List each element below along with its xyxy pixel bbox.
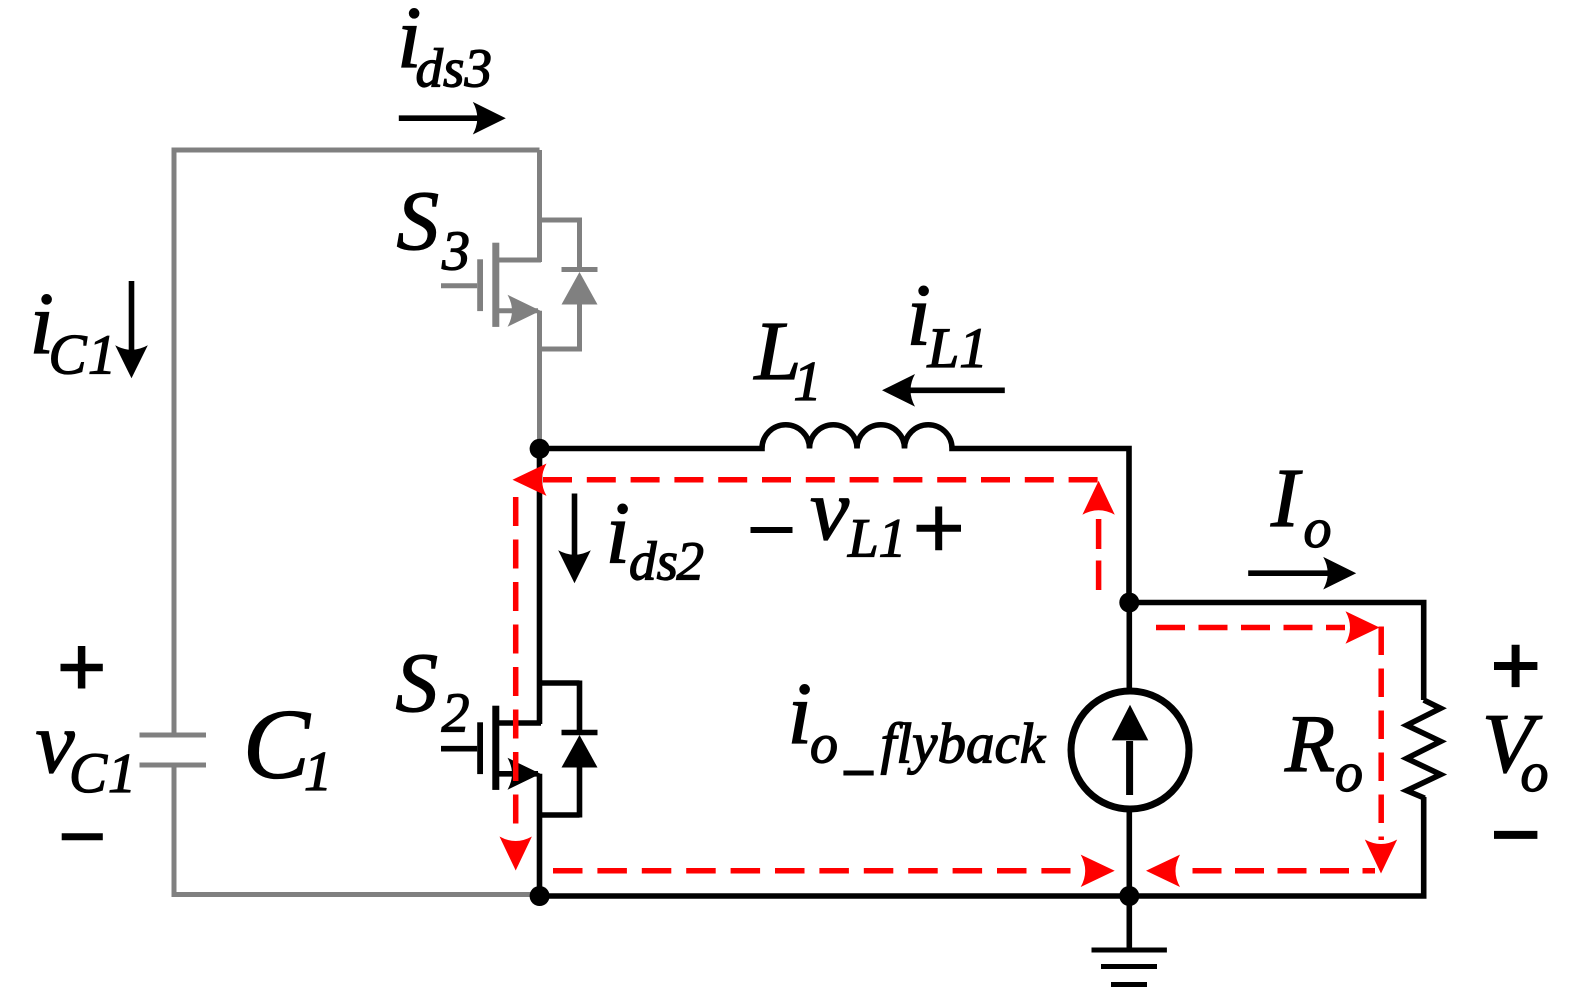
node A (junction dot at S3 source / L1 left): [530, 439, 550, 459]
transistor S2 source lead with arrow: [497, 758, 541, 790]
node D (junction dot at bottom rail / ground): [1119, 886, 1139, 906]
transistor S2 branch to body diode (top): [540, 680, 580, 686]
red dashed loop 1 left edge with down arrow: [500, 497, 532, 871]
svg-text:L1: L1: [927, 317, 988, 380]
node B (junction dot at S2 source / bottom rail): [530, 886, 550, 906]
svg-text:C: C: [69, 742, 108, 805]
label plus of V_o: [1494, 645, 1537, 687]
node C (junction of L1 right / current source / Ro branch): [1119, 593, 1139, 613]
transistor S3 (gray MOSFET) drain vertical: [537, 150, 542, 262]
svg-text:1: 1: [88, 325, 116, 387]
label minus of v_L1: [751, 527, 793, 533]
svg-text:2: 2: [442, 683, 470, 745]
transistor S3 source lead with arrow: [497, 295, 541, 327]
svg-text:v: v: [810, 462, 850, 559]
diode D2 (body diode of S2): [562, 681, 598, 818]
svg-text:flyback: flyback: [881, 713, 1047, 776]
arrow for i_C1 (down): [115, 281, 148, 378]
label L1: [754, 305, 822, 413]
svg-text:S: S: [397, 174, 440, 268]
svg-text:ds: ds: [416, 38, 465, 99]
red dashed loop 1 bottom edge with right arrow: [553, 855, 1115, 887]
arrow for i_ds2 (down): [558, 494, 591, 584]
svg-text:i: i: [606, 486, 630, 583]
svg-text:S: S: [396, 636, 439, 730]
label i_ds3: [397, 0, 492, 99]
wire: gray left vertical wire lower (C1 loop): [172, 768, 177, 897]
svg-text:1: 1: [108, 743, 136, 805]
label I_o: [1270, 452, 1332, 560]
wire: gray source vertical of S3 down to node A: [537, 311, 542, 448]
transistor S3 channel bar: [492, 243, 499, 327]
wire: top branch node C to resistor (Io path): [1129, 603, 1423, 701]
svg-text:o: o: [1304, 498, 1332, 560]
wire: current source bottom to node D: [1127, 807, 1133, 896]
label V_o: [1482, 697, 1549, 804]
svg-text:1: 1: [794, 351, 822, 413]
label S2: [396, 636, 470, 745]
current source i_o_flyback (circle with up arrow): [1071, 691, 1189, 809]
diode D3 (body diode of S3): [562, 218, 598, 352]
svg-text:C: C: [243, 689, 311, 800]
label S3: [397, 174, 471, 283]
svg-text:3: 3: [464, 38, 493, 99]
svg-text:i: i: [788, 666, 812, 763]
label plus of v_C1: [61, 646, 103, 689]
svg-text:o: o: [1335, 742, 1363, 804]
wire: node C to current source top: [1127, 602, 1133, 693]
resistor Ro zigzag: [1407, 700, 1441, 798]
svg-text:ds: ds: [629, 531, 678, 592]
svg-text:2: 2: [677, 531, 705, 592]
wire: gray bottom wire from C1 to node B: [172, 892, 541, 897]
svg-text:o: o: [810, 714, 838, 776]
capacitor C1 plates: [140, 735, 207, 765]
svg-text:R: R: [1284, 698, 1335, 789]
svg-text:C: C: [49, 324, 88, 387]
svg-text:1: 1: [304, 741, 332, 803]
label R_o: [1284, 698, 1363, 804]
arrow for i_ds3: [399, 102, 506, 135]
wire: black bottom rail from node B to resistor branch: [540, 893, 1427, 899]
wire: gray left vertical wire upper (C1 loop): [172, 148, 177, 734]
transistor S3 branch to body diode (top): [540, 218, 580, 223]
label i_o_flyback: [788, 666, 1047, 776]
wire: resistor bottom to bottom rail: [1421, 797, 1427, 896]
label i_C1: [30, 276, 117, 387]
label i_ds2: [606, 486, 705, 592]
label i_L1: [907, 268, 988, 381]
transistor S3 drain lead: [497, 258, 541, 263]
red dashed loop 2 top edge with right arrow: [1156, 611, 1380, 643]
red dashed loop 1 top edge with left arrow: [513, 464, 1099, 496]
transistor S3 gate lead: [441, 283, 477, 288]
label C1: [243, 689, 332, 804]
transistor S3 branch from body diode (bottom): [540, 347, 580, 352]
transistor S2 gate bar: [477, 722, 483, 774]
label v_C1: [36, 695, 137, 805]
svg-text:L1: L1: [847, 508, 906, 569]
inductor L1 with series wires: [540, 425, 1130, 602]
svg-text:o: o: [1521, 742, 1549, 804]
arrow for i_L1 (left): [882, 374, 1005, 407]
label v_L1: [810, 462, 906, 569]
svg-text:3: 3: [441, 221, 470, 283]
arrow for I_o (right): [1248, 557, 1356, 590]
wire: gray top wire of C1 loop: [172, 148, 540, 153]
label plus of v_L1: [917, 507, 962, 551]
red dashed loop 2 right edge with down arrow: [1365, 627, 1397, 874]
transistor S2 gate lead: [441, 746, 477, 752]
red dashed loop 2 bottom edge with left arrow: [1146, 855, 1375, 887]
transistor S2 drain lead: [497, 720, 541, 726]
transistor S2 channel bar: [492, 706, 499, 790]
wire: black drain vertical of S2 from node A: [537, 448, 543, 724]
transistor S3 gate bar: [477, 259, 483, 311]
label minus of V_o: [1494, 831, 1537, 839]
red dashed loop 1 right edge with up arrow: [1082, 481, 1114, 590]
transistor S2 branch from body diode (bottom): [540, 812, 580, 818]
label minus of v_C1: [62, 833, 103, 840]
wire: black source vertical of S2 down to node B: [537, 774, 543, 896]
svg-text:I: I: [1270, 452, 1303, 545]
ground: [1092, 896, 1167, 985]
